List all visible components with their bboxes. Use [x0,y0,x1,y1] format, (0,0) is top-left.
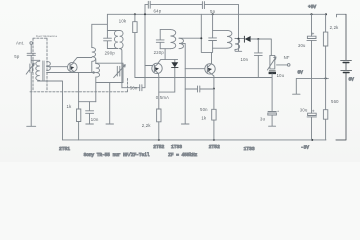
svg-text:10n: 10n [91,117,99,122]
svg-text:6V: 6V [349,77,355,82]
svg-text:3u: 3u [260,117,266,122]
diode detector [244,36,271,55]
wire Q1 base [47,66,68,68]
inductor ferrite primary [36,60,40,81]
wire top feedback line [145,4,239,6]
wire Q3 emitter down [211,74,214,110]
inductor IFT3 secondary [235,38,240,49]
junction 0V 560 [325,77,327,79]
label 3u [260,117,266,122]
label 0.5mA [156,95,169,100]
svg-text:+5V: +5V [308,4,316,10]
wire wiper NF [277,64,288,66]
svg-text:10k: 10k [119,18,127,23]
label Ant. [16,41,25,46]
svg-text:50n: 50n [130,86,138,91]
label 290p [105,51,116,56]
svg-text:30u: 30u [300,107,308,112]
dashed gang coupling line [30,79,128,92]
svg-text:2T51: 2T51 [59,146,70,152]
svg-text:+: + [277,109,279,113]
oscillator tank box [96,59,123,83]
svg-text:ZF = 455kHz: ZF = 455kHz [168,153,197,158]
transistor Q1 [68,62,78,72]
capacitor 290p oscillator [104,38,112,48]
wire 2.2k to rail [158,122,160,140]
junction IFT3 rail [212,13,214,15]
wire IFT1 top bracket [107,30,119,32]
wire IFT2 secondary to Q3 base line [179,38,201,123]
label 1k Q1 [67,104,73,109]
capacitor 50n Q2 [122,66,145,91]
svg-text:-3V: -3V [301,145,309,151]
label 30u top [298,43,306,48]
svg-text:2T52: 2T52 [153,144,164,150]
label 2T52 second [209,144,220,150]
wire 30u column [311,14,313,140]
ground stub Q3 base line [181,123,189,125]
label NF [284,55,290,60]
transistor Q2 [152,63,162,73]
svg-text:50n: 50n [200,107,208,112]
capacitor 10n Q1 [86,102,94,124]
label 560 [331,99,339,104]
resistor 560 [323,78,327,139]
label 6V [349,77,355,82]
junction Q2 emitter rail [158,139,160,141]
label 2T52 first [153,144,164,150]
junction feedback rail [144,13,146,15]
resistor 10k [133,14,137,77]
wire IFT1 secondary down [120,49,122,88]
capacitor 5p antenna [27,53,35,55]
caption Sony TR-55 [84,153,150,158]
svg-text:Sony TR-55 nur HF/ZF-Teil: Sony TR-55 nur HF/ZF-Teil [84,153,150,158]
wire feedback drop to detector [238,5,240,51]
junction 10k top [134,13,136,15]
junction 30u rail [310,13,312,15]
capacitor 10u electrolytic [269,71,276,74]
capacitor 30u bottom electrolytic [307,110,316,117]
wire pot down [271,74,273,112]
variable capacitor C1a tuning [26,63,34,74]
variable capacitor C1b oscillator [114,65,126,78]
label 5p antenna [14,54,20,59]
junction Q3 emitter rail [213,139,215,141]
label 10k [119,18,127,23]
svg-text:560: 560 [331,99,339,104]
wire antenna to tank [31,55,40,63]
label 50n Q3 [200,107,208,112]
svg-text:Ant.: Ant. [16,41,25,46]
label +5V [308,4,316,10]
svg-text:64p: 64p [154,8,162,13]
wire Q3 collector bracket [201,14,212,64]
wire Q2 collector [158,49,178,64]
junction detector 10n [257,38,259,40]
resistor 1k Q3 [212,109,216,120]
svg-text:2,2k: 2,2k [330,25,340,30]
inductor IFT2 primary [171,30,176,49]
capacitor 64p [148,1,150,8]
label 1T33 first [171,144,182,150]
junction IFT2 secondary feed [200,37,202,39]
inductor IFT2 secondary [179,38,184,49]
label 2.2k Q2 [142,123,152,128]
node +5V rail [107,14,346,17]
svg-text:230p: 230p [154,50,165,55]
inductor oscillator tank coil [96,63,100,82]
wire antenna [30,44,32,53]
ferrite antenna dashed box [33,38,47,91]
ground stub antenna [27,125,36,127]
wire 1k Q3 to rail [213,120,215,140]
label 5p top [210,9,216,14]
junction feedback detector [238,38,240,40]
resistor 2.2k right [323,14,327,78]
wire Q2 emitter down [157,73,160,109]
svg-text:10n: 10n [241,57,249,62]
ground stub 10n Q1 [86,123,94,125]
label 230p [154,50,165,55]
diode AGC [159,60,178,93]
transistor Q3 [205,64,215,74]
wire oscillator top bracket [92,14,108,47]
svg-text:NF: NF [284,55,290,60]
label 1T33 second [244,146,255,152]
label 10n detector [241,57,249,62]
capacitor 50n Q3 [185,86,214,92]
wire ferrite to ground riser [38,81,63,140]
wire osc box centre leg [109,83,111,124]
ground stub oscillator [106,123,114,125]
capacitor 30u top electrolytic [307,33,316,41]
svg-text:290p: 290p [105,51,116,56]
caption ZF [168,153,197,158]
inductor IFT1 secondary [120,31,123,49]
svg-text:0V: 0V [298,70,304,75]
wire AGC line [135,77,272,79]
label 30u bottom [300,107,308,112]
wire detector line [235,38,244,40]
label -3V [301,145,309,151]
junction 30u bottom rail [311,139,313,141]
wire Q3 base [185,68,205,70]
wire 0V line [296,78,328,93]
battery 6V [336,14,352,140]
wire IFT3 top bracket [213,29,227,31]
wire osc box left leg [95,83,97,102]
wire IFT1 bottom bracket [107,48,118,50]
svg-text:10u: 10u [277,73,285,78]
terminal Ant [30,42,33,45]
capacitor 3u electrolytic [268,112,277,126]
capacitor 10n detector [254,39,262,78]
svg-text:2T52: 2T52 [209,144,220,150]
inductor ferrite secondary [47,61,51,70]
svg-text:0,5mA: 0,5mA [156,95,169,100]
terminal NF [287,64,290,67]
label 50n Q2 [130,86,138,91]
label 3u plus [277,109,279,113]
wire IFT3 bottom bracket [213,47,227,49]
wire 1k to rail [78,122,80,140]
wire Q1 collector [73,58,91,63]
svg-text:1k: 1k [67,104,73,109]
ground stub 0V [293,93,300,95]
inductor IFT1 primary [114,31,117,49]
capacitor 5p top [202,2,204,9]
junction 2.2k rail [325,13,327,15]
svg-text:1k: 1k [201,116,207,121]
node bottom -3V rail [63,139,347,141]
potentiometer volume [267,55,276,70]
wire IFT2 bottom bracket [160,48,170,50]
wire feedback drop to Q2 base [145,5,152,66]
capacitor 230p IFT3 [209,14,217,48]
label 0V [298,70,304,75]
label 64p [154,8,162,13]
label 2T51 [59,146,70,152]
svg-text:5p: 5p [14,54,20,59]
label 2.2k right [330,25,340,30]
inductor IFT3 primary [227,30,232,48]
junction Q3 emitter 50n [213,88,215,90]
label 10n Q1 [91,117,99,122]
wire varcap down to ground stub [30,72,32,126]
resistor 2.2k Q2 [157,109,161,122]
svg-text:Ferritantenne: Ferritantenne [36,34,57,38]
svg-text:1T33: 1T33 [171,144,182,150]
inductor oscillator coil L2 [92,48,96,73]
ground stub 3u [269,125,276,127]
wire IFT3 secondary bottom stub [234,50,236,51]
svg-text:1T33: 1T33 [244,146,255,152]
label 1k Q3 [201,116,207,121]
svg-text:2,2k: 2,2k [142,123,152,128]
wire IFT2 top bracket [160,29,170,31]
capacitor 230p IFT2 [156,30,164,49]
svg-text:30u: 30u [298,43,306,48]
ferrite rod [43,61,44,81]
resistor 1k Q1 [77,109,81,122]
svg-text:5p: 5p [210,9,216,14]
label Ferritantenne [36,34,57,38]
wire emitter bias branch [79,101,96,103]
wire Q1 emitter tap [47,72,96,74]
ground stub IFT3 [235,50,241,52]
wire Q1 emitter down [78,73,80,110]
label 10u [277,73,285,78]
